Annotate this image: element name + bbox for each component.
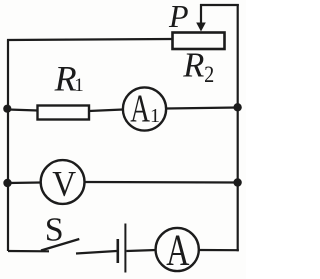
battery negative plate (short) <box>117 239 120 263</box>
switch S blade <box>41 239 79 251</box>
wire slider P vertical <box>200 4 202 24</box>
svg-text:V: V <box>52 164 76 203</box>
wire bottom left stub <box>8 250 49 253</box>
svg-text:S: S <box>45 211 64 248</box>
svg-text:A: A <box>130 87 150 130</box>
wire row2 left <box>8 110 38 111</box>
wire ammeter to corner <box>199 249 239 251</box>
svg-text:R: R <box>54 58 77 98</box>
svg-text:1: 1 <box>74 75 84 96</box>
wire row3 left <box>8 181 41 184</box>
wire row3 right <box>85 181 238 184</box>
rheostat R2 <box>173 33 225 50</box>
svg-text:1: 1 <box>150 105 160 127</box>
svg-text:A: A <box>166 227 189 275</box>
svg-text:R: R <box>182 47 204 85</box>
node junction right row3 <box>233 178 241 186</box>
wire battery to ammeter <box>126 250 156 251</box>
voltmeter V <box>41 160 85 204</box>
ammeter A1 <box>123 87 166 130</box>
wire row2 right <box>166 108 238 109</box>
resistor R1 <box>38 106 90 120</box>
wire slider P horizontal <box>200 4 239 6</box>
wire row2 mid <box>89 110 123 112</box>
svg-text:P: P <box>168 0 189 34</box>
wire left vertical <box>7 40 9 252</box>
ammeter A <box>156 228 199 271</box>
slider arrow <box>196 23 206 32</box>
battery positive plate (long) <box>124 224 126 273</box>
wire top horizontal <box>7 39 173 40</box>
wire switch to battery <box>76 251 117 254</box>
node junction left row3 <box>3 179 11 187</box>
node junction right row2 <box>233 103 241 111</box>
node junction left row2 <box>3 105 11 113</box>
svg-text:2: 2 <box>204 62 214 87</box>
wire right vertical <box>237 4 239 251</box>
